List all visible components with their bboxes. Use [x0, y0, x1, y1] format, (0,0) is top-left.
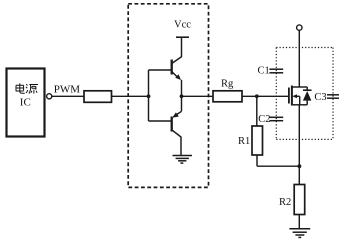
svg-text:C2: C2 [258, 114, 270, 125]
svg-text:C1: C1 [258, 66, 270, 77]
svg-text:C3: C3 [314, 92, 326, 103]
svg-text:IC: IC [20, 97, 31, 109]
svg-text:Vcc: Vcc [174, 20, 191, 31]
svg-text:R2: R2 [279, 197, 291, 208]
svg-text:Rg: Rg [221, 78, 234, 89]
svg-text:PWM: PWM [54, 83, 81, 95]
svg-text:R1: R1 [238, 136, 250, 147]
